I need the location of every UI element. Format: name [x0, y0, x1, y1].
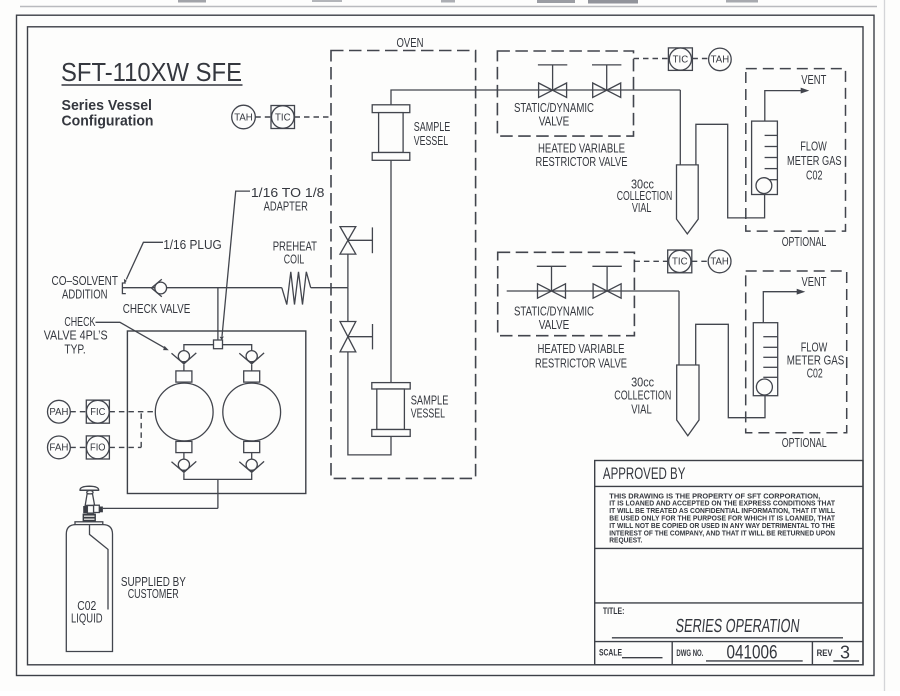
right pump head bottom — [244, 441, 260, 452]
cylinder valve bonnet — [85, 494, 94, 506]
cylinder inner contour line — [90, 525, 109, 610]
svg-text:VIAL: VIAL — [631, 401, 652, 416]
node: co-solvent line plug (1/16 plug) — [122, 283, 125, 294]
svg-text:SFT-110XW SFE: SFT-110XW SFE — [61, 57, 242, 87]
svg-text:TITLE:: TITLE: — [603, 606, 625, 616]
valve SD2a (horizontal bowtie with T-stem) — [537, 266, 566, 298]
wire dashed FIO branch — [109, 412, 141, 448]
optional box 1 (dashed) — [746, 69, 846, 232]
instrument TAH (left) — [232, 105, 256, 129]
svg-text:FIC: FIC — [90, 407, 105, 418]
svg-text:1/16 PLUG: 1/16 PLUG — [163, 237, 222, 252]
svg-text:SCALE: SCALE — [599, 647, 622, 657]
preheat coil (zigzag) — [282, 272, 311, 305]
sample vessel 2 (bottom) — [372, 383, 410, 437]
wire: vessel1 bottom to vessel2 top — [390, 160, 392, 382]
instrument FAH — [48, 436, 71, 459]
svg-text:APPROVED BY: APPROVED BY — [603, 465, 686, 483]
svg-text:VALVE: VALVE — [539, 317, 570, 332]
svg-text:CUSTOMER: CUSTOMER — [128, 586, 179, 601]
check valve P3 (left pump bottom) — [172, 453, 197, 474]
wire: line 2 down to vial 2 — [678, 291, 680, 365]
wire: flow meter 2 to vent with arrow — [763, 289, 805, 323]
svg-text:TIC: TIC — [672, 257, 688, 268]
sample vessel 1 (top) — [372, 105, 410, 161]
svg-text:REQUEST.: REQUEST. — [609, 537, 642, 545]
pump 2 (right circle) — [223, 383, 281, 441]
svg-text:VENT: VENT — [801, 72, 826, 87]
cylinder neck collar — [83, 514, 96, 522]
svg-text:LIQUID: LIQUID — [71, 611, 103, 626]
wire: vessel1 top to first restrictor line — [391, 90, 680, 105]
svg-text:CHECK VALVE: CHECK VALVE — [123, 301, 191, 316]
valve V1 (oven upper, vertical bowtie with stem) — [340, 227, 372, 255]
check valve P1 (left pump top) — [172, 351, 197, 371]
svg-text:VENT: VENT — [802, 274, 827, 289]
svg-text:ADAPTER: ADAPTER — [264, 199, 308, 214]
cylinder shoulder ring — [75, 522, 103, 525]
wire valve V1 to junction — [347, 254, 349, 288]
valve SD2b (horizontal bowtie with T-stem) — [592, 266, 621, 298]
instrument TIC (left, square with circle) — [271, 106, 295, 129]
static/dynamic valve box 2 (dashed) — [498, 252, 635, 335]
svg-text:TAH: TAH — [234, 112, 253, 123]
svg-text:TAH: TAH — [710, 257, 729, 268]
wire dashed FIC to pump 1 — [109, 411, 155, 413]
svg-text:REV: REV — [817, 648, 833, 658]
svg-text:VIAL: VIAL — [632, 200, 652, 215]
instrument PAH — [48, 400, 71, 423]
svg-text:VESSEL: VESSEL — [414, 133, 448, 148]
CO2 cylinder handwheel — [80, 486, 99, 494]
wire: inlet stub in box 2 — [507, 290, 679, 292]
svg-text:PAH: PAH — [49, 407, 68, 418]
svg-text:RESTRICTOR VALVE: RESTRICTOR VALVE — [535, 355, 627, 370]
svg-text:SERIES OPERATION: SERIES OPERATION — [674, 616, 800, 637]
valve V2 (oven lower, vertical bowtie with stem) — [340, 322, 373, 352]
title block frame — [595, 461, 863, 665]
wire: coil to oven junction — [311, 287, 348, 289]
static/dynamic valve box 1 (dashed) — [497, 51, 633, 136]
svg-text:TIC: TIC — [275, 112, 291, 123]
svg-text:INTEREST OF THE COMPANY, A: INTEREST OF THE COMPANY, AND THAT IT WIL… — [609, 529, 835, 537]
svg-text:COLLECTION: COLLECTION — [614, 387, 671, 402]
optional box 2 (dashed) — [746, 271, 847, 433]
svg-text:HEATED VARIABLE: HEATED VARIABLE — [538, 341, 625, 356]
adapter fitting (1/16 to 1/8) — [214, 340, 223, 349]
wire dashed TAH to TIC — [255, 116, 271, 118]
instrument TIC (set 1) — [668, 48, 692, 71]
check valve P4 (right pump bottom) — [239, 453, 264, 474]
svg-text:FAH: FAH — [49, 443, 68, 454]
legal text paragraph — [609, 492, 835, 544]
svg-text:COIL: COIL — [284, 251, 305, 266]
wire: check valve to preheat coil — [167, 287, 282, 289]
wire: main co-solvent line to check valve — [122, 287, 154, 289]
wire: vial 1 gas outlet to flow meter — [696, 124, 765, 218]
svg-text:TAH: TAH — [711, 55, 730, 66]
svg-text:DWG NO.: DWG NO. — [676, 648, 703, 658]
svg-text:FIO: FIO — [90, 443, 106, 454]
svg-text:OPTIONAL: OPTIONAL — [782, 435, 827, 450]
valve SD1b (horizontal bowtie with T-stem) — [592, 65, 621, 98]
svg-text:VESSEL: VESSEL — [411, 406, 445, 421]
pump 1 (left circle) — [155, 383, 213, 441]
instrument FIO — [86, 436, 109, 459]
flow meter 1 — [752, 121, 778, 194]
svg-text:FLOW: FLOW — [800, 138, 827, 153]
check valve CV1 (main line) — [151, 279, 166, 297]
svg-text:OVEN: OVEN — [397, 35, 424, 50]
svg-text:VALVE: VALVE — [539, 113, 570, 128]
wire dashed box2 to TIC — [634, 260, 667, 262]
wire dashed TIC to oven edge — [295, 116, 332, 118]
svg-text:VALVE 4PL’S: VALVE 4PL’S — [44, 328, 108, 343]
oven dashed enclosure — [331, 51, 476, 479]
instrument FIC — [86, 400, 109, 423]
wire: main line tee down to adapter — [217, 288, 219, 340]
svg-text:C02: C02 — [807, 365, 823, 380]
wire dashed box1 to TIC — [634, 58, 669, 60]
flow meter 2 — [753, 323, 777, 396]
wire: pump discharge manifold — [184, 473, 252, 508]
wire dashed FAH to FIO — [70, 446, 86, 448]
wire junction to valve V2 — [347, 288, 349, 322]
right pump head top — [244, 371, 260, 382]
collection vial 2 — [677, 365, 699, 436]
wire dashed PAH to FIC — [70, 411, 86, 413]
svg-text:METER GAS: METER GAS — [787, 153, 842, 168]
svg-text:TYP.: TYP. — [64, 342, 85, 357]
wire: pump suction manifold — [184, 345, 252, 351]
collection vial 1 — [677, 165, 699, 234]
wire dashed TIC to TAH (set 2) — [692, 260, 708, 262]
instrument TIC (set 2) — [668, 250, 692, 273]
svg-text:ADDITION: ADDITION — [62, 287, 108, 302]
svg-text:C02: C02 — [806, 167, 823, 182]
cylinder valve body with outlet — [83, 505, 106, 513]
wire: flow meter 1 to vent with arrow — [765, 88, 810, 122]
svg-text:Series Vessel: Series Vessel — [62, 98, 153, 114]
svg-text:SAMPLE: SAMPLE — [414, 119, 451, 134]
check valve P2 (right pump top) — [239, 351, 264, 371]
left pump head top — [176, 371, 192, 382]
valve SD1a (horizontal bowtie with T-stem) — [538, 65, 567, 98]
svg-text:3: 3 — [840, 642, 850, 662]
instrument TAH (set 1) — [709, 48, 732, 71]
CO2 cylinder body — [66, 525, 112, 652]
svg-text:OPTIONAL: OPTIONAL — [782, 234, 827, 249]
svg-text:Configuration: Configuration — [62, 114, 154, 130]
wire: vial 2 gas outlet to flow meter 2 — [696, 324, 765, 417]
svg-text:TIC: TIC — [673, 54, 689, 65]
left pump head bottom — [176, 441, 192, 452]
wire: valve V2 down, to vessel2 bottom — [348, 352, 391, 455]
wire: CO2 supply line to cylinder — [106, 507, 218, 509]
wire dashed TIC to TAH (set 1) — [692, 58, 708, 60]
instrument TAH (set 2) — [708, 250, 731, 273]
svg-text:RESTRICTOR VALVE: RESTRICTOR VALVE — [536, 154, 628, 169]
pump enclosure box — [127, 331, 305, 494]
wire: restrictor outlet down to vial 1 — [679, 90, 681, 165]
